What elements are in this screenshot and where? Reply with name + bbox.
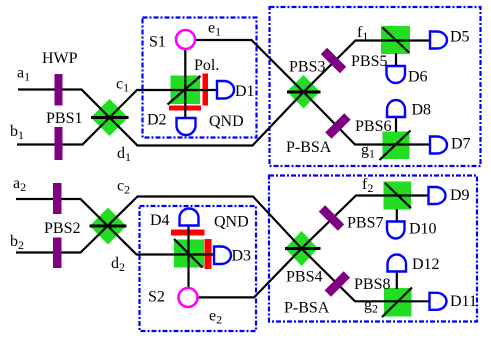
svg-text:PBS4: PBS4 bbox=[286, 269, 322, 286]
dashed box S2 QND bbox=[140, 206, 257, 331]
PBS1 axis bar bbox=[91, 116, 129, 119]
svg-text:PBS6: PBS6 bbox=[355, 118, 391, 135]
HWP bar on a1 bbox=[55, 74, 63, 106]
svg-text:Pol.: Pol. bbox=[194, 57, 219, 74]
svg-text:HWP: HWP bbox=[42, 50, 78, 67]
wire a2 to d2 to D3 bbox=[16, 199, 215, 255]
PBS5 diagonal bbox=[383, 28, 410, 53]
detector D3 bbox=[214, 247, 231, 265]
PBS4 axis bar bbox=[285, 247, 321, 250]
wire b1 to c1 to D1 bbox=[17, 90, 218, 145]
PBS8 body bbox=[384, 288, 412, 317]
PBS8 diagonal bbox=[382, 288, 412, 318]
wire PBS5 to D6 bbox=[395, 53, 397, 66]
detector D4 bbox=[180, 209, 199, 226]
svg-text:PBS8: PBS8 bbox=[354, 276, 390, 293]
wire PBS7 to D10 bbox=[396, 209, 398, 222]
svg-text:D6: D6 bbox=[408, 69, 428, 86]
QND square top diagonal bbox=[168, 76, 201, 105]
detector D7 bbox=[430, 137, 447, 154]
svg-text:D3: D3 bbox=[232, 248, 252, 265]
wave plate bar near PBS8 path bbox=[325, 271, 350, 296]
QND beam splitter square bottom bbox=[174, 240, 204, 268]
svg-text:PBS7: PBS7 bbox=[347, 215, 383, 232]
PBS2 axis bar bbox=[90, 225, 127, 228]
dashed box S1 QND bbox=[143, 18, 257, 138]
wave plate bar near PBS7 path bbox=[319, 205, 344, 230]
source S2 circle bbox=[179, 288, 198, 307]
svg-text:S2: S2 bbox=[148, 289, 165, 306]
beam splitter PBS3 body bbox=[287, 75, 320, 109]
QND beam splitter square top bbox=[171, 76, 201, 105]
polarizer red vertical bar bottom bbox=[205, 239, 212, 269]
svg-text:QND: QND bbox=[209, 113, 244, 130]
svg-text:D5: D5 bbox=[450, 29, 470, 46]
svg-text:D12: D12 bbox=[412, 256, 440, 273]
dashed box P-BSA bottom bbox=[269, 176, 477, 322]
wave plate bar near PBS5 path bbox=[321, 48, 346, 73]
detector D10 bbox=[387, 222, 405, 239]
detector D9 bbox=[429, 187, 446, 204]
wire S1 vertical to D2 bbox=[184, 49, 186, 118]
svg-text:PBS2: PBS2 bbox=[44, 220, 80, 237]
PBS6 diagonal bbox=[380, 131, 411, 161]
detector D5 bbox=[430, 32, 447, 49]
polarizer red vertical bar top bbox=[203, 74, 209, 106]
HWP bar on a2 bbox=[53, 183, 62, 214]
svg-text:P-BSA: P-BSA bbox=[286, 139, 332, 156]
beam splitter PBS4 body bbox=[285, 231, 318, 266]
svg-text:D1: D1 bbox=[235, 83, 255, 100]
detector D11 bbox=[430, 293, 447, 310]
svg-text:D8: D8 bbox=[412, 102, 432, 119]
polarizer red horizontal bar top bbox=[169, 106, 201, 111]
svg-text:QND: QND bbox=[214, 214, 249, 231]
detector D8 bbox=[387, 100, 405, 117]
PBS7 body bbox=[384, 182, 412, 210]
QND square bottom diagonal bbox=[174, 239, 203, 268]
polarizer red horizontal bar bottom bbox=[171, 230, 205, 236]
wire a1 to d1 to PBS3 to f1 bbox=[18, 41, 431, 146]
svg-text:D2: D2 bbox=[147, 112, 167, 129]
PBS5 body bbox=[381, 26, 410, 54]
wire e2 to PBS4 to f2 to D9 bbox=[196, 196, 430, 298]
PBS3 axis bar bbox=[287, 91, 321, 94]
svg-text:D4: D4 bbox=[150, 212, 170, 229]
source S1 circle bbox=[176, 30, 195, 49]
wire D12 to PBS8 bbox=[396, 272, 398, 290]
svg-text:D9: D9 bbox=[450, 187, 470, 204]
HWP bar on b2 bbox=[53, 238, 62, 269]
svg-text:S1: S1 bbox=[149, 34, 166, 51]
detector D12 bbox=[388, 255, 407, 272]
detector D1 bbox=[217, 81, 234, 99]
wave plate bar near PBS6 path bbox=[325, 113, 350, 138]
wire b2 to c2 to PBS4 to g2 to D11 bbox=[16, 197, 431, 302]
PBS7 diagonal bbox=[385, 183, 411, 208]
HWP bar on b1 bbox=[55, 127, 63, 160]
wire D8 to PBS6 bbox=[395, 117, 397, 132]
dashed box P-BSA top bbox=[270, 7, 481, 166]
detector D2 bbox=[177, 118, 196, 135]
svg-text:D7: D7 bbox=[451, 136, 471, 153]
beam splitter PBS1 body bbox=[91, 99, 129, 136]
detector D6 bbox=[387, 66, 406, 83]
beam splitter PBS2 body bbox=[90, 208, 127, 245]
svg-text:D11: D11 bbox=[450, 293, 477, 310]
svg-text:D10: D10 bbox=[409, 221, 437, 238]
svg-text:PBS3: PBS3 bbox=[289, 59, 325, 76]
wire S2 vertical to D4 bbox=[187, 225, 189, 288]
wire e1 to PBS3 to g1 to D7 bbox=[196, 40, 431, 145]
svg-text:PBS1: PBS1 bbox=[46, 110, 82, 127]
svg-text:P-BSA: P-BSA bbox=[284, 300, 330, 317]
PBS6 body bbox=[383, 132, 410, 160]
svg-text:PBS5: PBS5 bbox=[351, 53, 387, 70]
